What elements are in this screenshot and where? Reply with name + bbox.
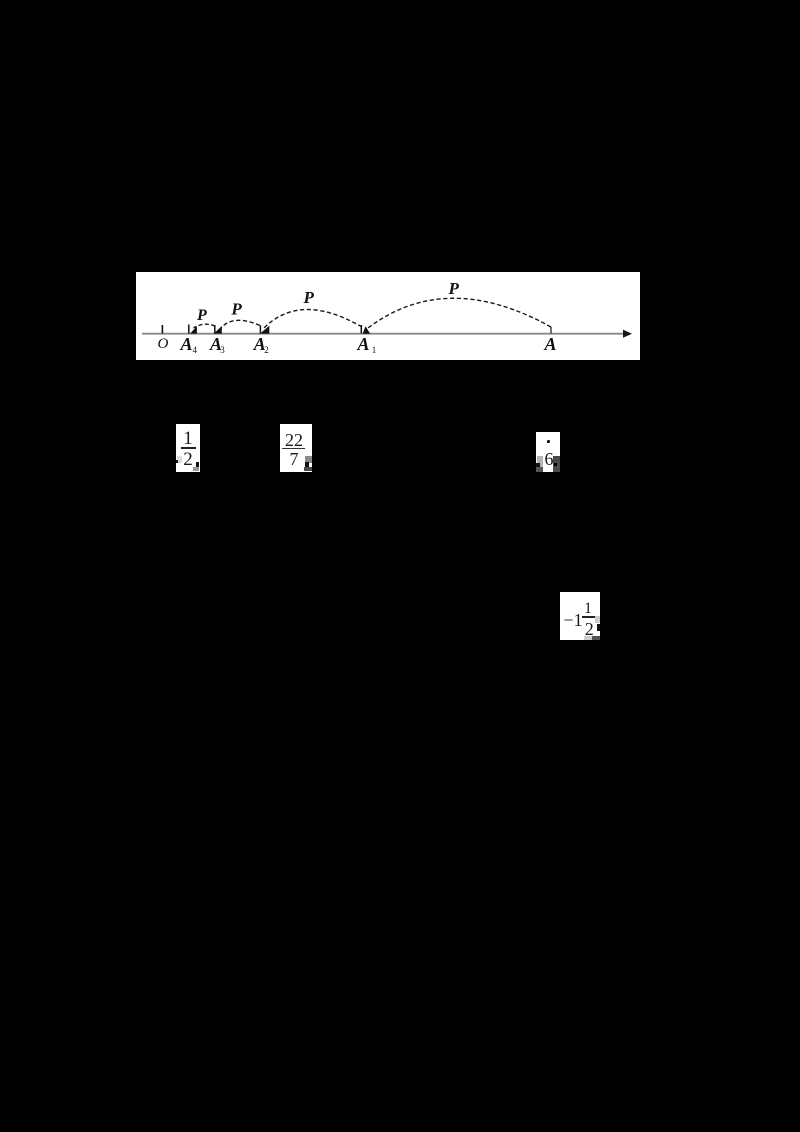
light gray patch bottom-left [537, 456, 543, 467]
arc P from A2 to A3 [221, 320, 260, 328]
svg-text:1: 1 [372, 345, 377, 355]
dark gray bottom strip [592, 636, 600, 640]
small numerator 1 [581, 601, 595, 617]
svg-text:A: A [357, 334, 370, 354]
tick O [161, 325, 163, 334]
fraction bar [181, 447, 196, 449]
black comma at right edge [597, 624, 601, 632]
svg-text:P: P [303, 288, 315, 307]
arc P from A1 to A2 [264, 309, 362, 328]
small denominator 2 [582, 620, 597, 638]
svg-text:A: A [544, 334, 557, 354]
dark gray column right [553, 456, 560, 472]
repeating dot [547, 440, 550, 443]
arrowhead at A1 [363, 326, 371, 334]
black comma fragment left [176, 460, 178, 463]
fraction bar [282, 448, 305, 449]
formula box 6 with dot [536, 432, 560, 472]
tick A2 [259, 326, 261, 334]
gray corner bottom-right [193, 467, 200, 471]
dark gray corner bottom-right [304, 467, 312, 472]
svg-text:O: O [158, 336, 169, 352]
svg-text:4: 4 [193, 345, 198, 355]
svg-text:P: P [448, 279, 460, 298]
number line [142, 333, 627, 335]
digit 6 [537, 450, 561, 468]
diagram white panel [136, 272, 640, 360]
arrowhead at A3 [214, 326, 222, 334]
formula box -1 1/2 [560, 592, 600, 640]
small fraction bar [582, 616, 595, 618]
dark strip bottom-left [536, 467, 543, 472]
minus one [562, 611, 584, 629]
black comma on dark column [554, 463, 558, 467]
tick A4 [188, 325, 190, 334]
arrowhead at A2 [260, 326, 269, 334]
formula box 1/2 [176, 424, 200, 473]
light gray bottom strip [584, 636, 592, 640]
denominator 2 [176, 450, 200, 469]
black comma fragment right [196, 462, 199, 467]
svg-text:A: A [180, 334, 193, 354]
black comma fragment [305, 462, 309, 467]
light gray patch right of bar [595, 616, 600, 624]
gray patch right [305, 456, 312, 464]
number line arrowhead [623, 330, 632, 338]
numerator 22 [278, 431, 310, 449]
arc P from A3 to A4 [194, 324, 216, 328]
numerator 1 [176, 429, 200, 448]
svg-text:P: P [230, 300, 242, 319]
arrowhead at A4 [190, 326, 197, 333]
formula box 22/7 [280, 424, 312, 472]
black mark bottom-left [536, 463, 540, 467]
denominator 7 [278, 450, 310, 468]
tick A [550, 327, 552, 334]
gray patch left of 2 [177, 456, 182, 464]
tick A3 [214, 325, 216, 334]
arc P from A to A1 [368, 298, 551, 328]
svg-text:3: 3 [220, 345, 225, 355]
svg-text:2: 2 [264, 345, 269, 355]
tick A1 [360, 325, 362, 334]
svg-text:P: P [196, 307, 207, 324]
